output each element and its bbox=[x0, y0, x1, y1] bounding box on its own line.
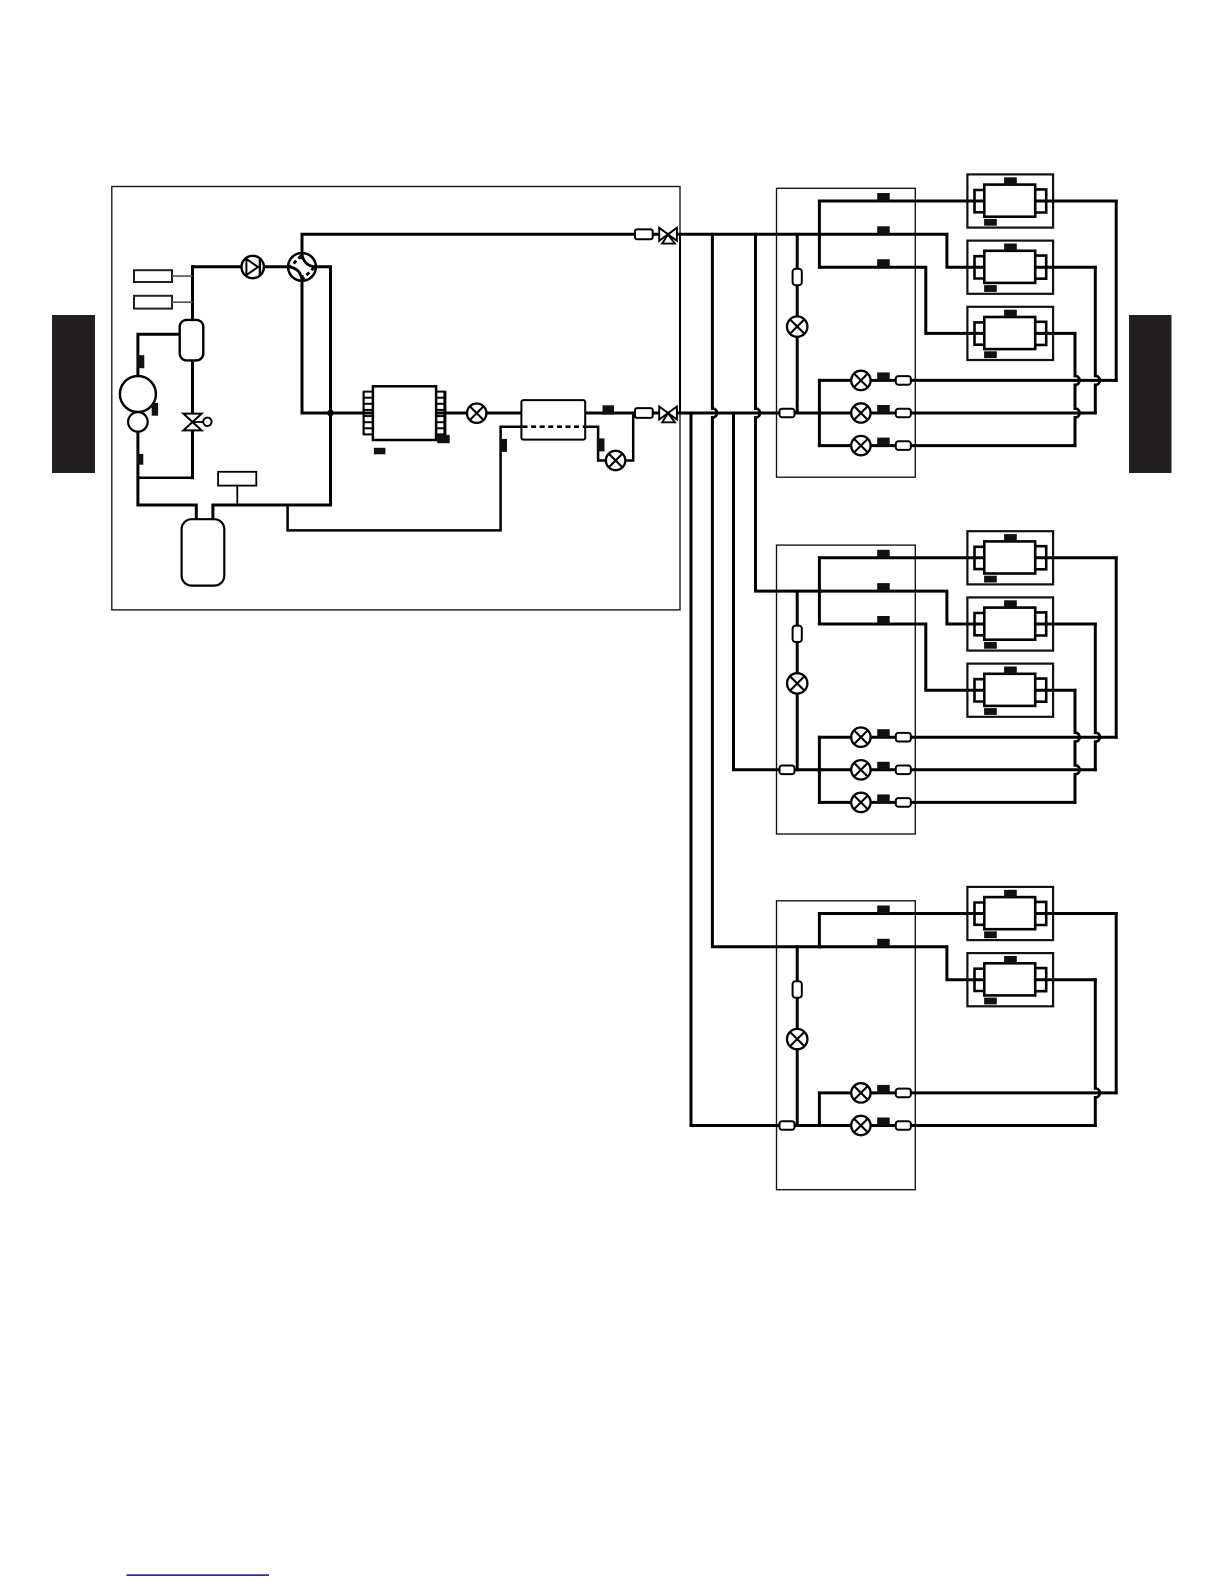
wire: BS3 liquid manifold bbox=[818, 1093, 821, 1126]
wire: indoor unit 1-2 return drop bbox=[1094, 267, 1097, 376]
liquid line stop valve SVL1 (with service port) bbox=[635, 407, 677, 423]
fan motor box M1 bbox=[134, 270, 172, 282]
wire: subcooler branch from bottom header bbox=[288, 427, 522, 531]
expansion valve EV32 (circle-X) bbox=[851, 1116, 870, 1135]
wire: BS1 gas line C to indoor unit 1-3 bbox=[819, 267, 987, 333]
wire: BS2 gas line A to indoor unit 2-1 bbox=[819, 556, 987, 559]
wire: indoor unit 2-3 outlet stub bbox=[1033, 689, 1075, 692]
sensor mark T5 (coil outlet) bbox=[437, 435, 450, 443]
wire: indoor unit 1-1 return drop bbox=[1115, 201, 1118, 380]
sensor mark BS1-GB bbox=[877, 226, 890, 234]
footer blue rule bbox=[127, 1574, 270, 1576]
gas line stop valve SVG1 (with service port) bbox=[635, 228, 677, 244]
wire: indoor unit 3-1 return drop bbox=[1115, 914, 1118, 1093]
indoor unit 1-2 bbox=[967, 241, 1053, 294]
four-way valve V4W bbox=[288, 253, 316, 281]
wire: BS1 gas line B step to indoor unit 1-2 bbox=[947, 234, 987, 267]
check valve / pump symbol bbox=[242, 256, 264, 278]
wire: BS3 liquid row1 bbox=[819, 1091, 1116, 1094]
compressor COMP (lower dome) bbox=[128, 412, 148, 432]
node: heat exchanger junction dot bbox=[327, 410, 334, 417]
expansion valve EV21 (circle-X) bbox=[851, 728, 870, 747]
sensor mark BS2-GC bbox=[877, 616, 890, 624]
indoor unit 2-3 bbox=[967, 664, 1053, 717]
branch box BS3 enclosure bbox=[777, 901, 916, 1190]
wire: gas riser crossover to branch box BS3 bbox=[711, 234, 714, 408]
wire: indoor unit 2-2 return drop bbox=[1094, 624, 1097, 733]
wire: indoor unit 1-3 outlet stub bbox=[1033, 332, 1075, 335]
sensor mark BS1-GA bbox=[877, 193, 890, 201]
outdoor unit enclosure bbox=[112, 187, 680, 610]
sensor mark BS3-L1 bbox=[877, 1085, 890, 1093]
wire: BS2 gas strainer branch bbox=[796, 591, 799, 770]
expansion valve EV13 (circle-X) bbox=[851, 436, 870, 455]
expansion valve EV11 (circle-X) bbox=[851, 371, 870, 390]
sensor mark T7 (subcooler bypass) bbox=[597, 438, 605, 451]
expansion valve EV20 (circle-X) bbox=[787, 673, 807, 693]
sensor mark BS2-L1 bbox=[877, 729, 890, 737]
sensor mark T3 (suction lower) bbox=[137, 454, 144, 465]
wire: indoor unit 3-1 outlet stub bbox=[1033, 912, 1116, 915]
crankcase heater box bbox=[218, 472, 256, 486]
wire: accumulator down through expansion valve EEV1 bbox=[191, 267, 194, 478]
indoor unit 2-1 bbox=[967, 531, 1053, 584]
wire: BS3 gas line A to indoor unit 3-1 bbox=[819, 912, 987, 915]
sensor mark BS3-GA bbox=[877, 906, 890, 914]
flare joint BS2-L3 (port) bbox=[896, 798, 911, 807]
wire: indoor unit 1-3 return drop bbox=[1074, 333, 1077, 375]
wire: fan motor box M2 lead bbox=[172, 301, 193, 303]
wire: BS2 gas manifold bbox=[818, 558, 821, 624]
strainer F3 bbox=[793, 981, 802, 997]
wire: gas riser crossover to branch box BS2 bbox=[754, 234, 757, 408]
wire: BS1 liquid row1 bbox=[819, 379, 1116, 382]
sensor mark BS1-GC bbox=[877, 259, 890, 267]
wire: BS3 gas manifold bbox=[818, 914, 821, 947]
indoor unit 2-2 bbox=[967, 597, 1053, 650]
sensor mark BS2-GA bbox=[877, 550, 890, 558]
expansion valve EV22 (circle-X) bbox=[851, 760, 870, 779]
sensor mark BS3-GB bbox=[877, 939, 890, 947]
indoor unit 1-3 bbox=[967, 307, 1053, 360]
wire: liquid riser to branch box BS3 bbox=[691, 413, 821, 1126]
flare joint BS3-L1 (port) bbox=[896, 1089, 911, 1098]
wire: receiver outlet to four-way valve riser bbox=[213, 267, 331, 522]
expansion valve EV31 (circle-X) bbox=[851, 1083, 870, 1102]
wire: crankcase sensor stub bbox=[236, 485, 238, 505]
subcooler SC (plate hx) bbox=[521, 400, 585, 440]
solenoid valve SV2 (circle-X) bbox=[606, 451, 625, 470]
flare joint BS2-L1 (port) bbox=[896, 733, 911, 742]
sensor mark BS1-L1 bbox=[877, 372, 890, 380]
wire: indoor unit 2-2 outlet stub bbox=[1033, 623, 1095, 626]
indoor unit 3-1 bbox=[967, 887, 1053, 940]
strainer F2 bbox=[793, 626, 802, 642]
sensor mark BS2-GB bbox=[877, 583, 890, 591]
strainer F1 bbox=[793, 269, 802, 285]
right margin tab (black) bbox=[1129, 315, 1172, 473]
wire: fan motor box M1 lead bbox=[172, 275, 193, 277]
wire: discharge pipe to four-way valve bbox=[193, 265, 289, 268]
sensor mark BS3-L2 bbox=[877, 1118, 890, 1126]
wire: indoor unit 3-2 outlet stub bbox=[1033, 978, 1095, 981]
sensor mark BS2-L2 bbox=[877, 762, 890, 770]
wire: top pipe from four-way valve to gas stop valve bbox=[302, 234, 947, 253]
branch box BS1 enclosure bbox=[777, 188, 916, 477]
flare joint BS2-L2 (port) bbox=[896, 766, 911, 775]
wire: oil-return tee to expansion valve line bbox=[138, 477, 193, 480]
receiver REC bbox=[182, 519, 225, 585]
sensor mark T6 (subcooler branch) bbox=[499, 439, 507, 452]
sensor mark T8 (liquid main) bbox=[603, 405, 615, 414]
wire: BS2 gas line B from riser to indoor unit 2-2 bbox=[819, 591, 987, 624]
sensor mark T4 (coil) bbox=[374, 448, 386, 455]
wire: liquid main from heat exchanger through branch box BS1 bbox=[331, 412, 1096, 415]
expansion valve EV12 (circle-X) bbox=[851, 403, 870, 422]
wire: BS3 gas strainer branch bbox=[796, 947, 799, 1126]
wire: liquid riser to branch box BS2 bbox=[734, 413, 822, 770]
sensor mark T2 (compressor shell) bbox=[152, 403, 158, 416]
wire: BS2 liquid manifold bbox=[818, 737, 821, 802]
wire: indoor unit 2-1 return drop bbox=[1115, 558, 1118, 737]
flare joint BS1-L3 (port) bbox=[896, 441, 911, 450]
wire: indoor unit 1-2 outlet stub bbox=[1033, 266, 1095, 269]
wire: four-way valve bottom leg to heat-exchanger node bbox=[302, 280, 329, 413]
wire: BS3 liquid row2 bbox=[819, 1124, 1095, 1127]
wire: BS1 gas line A to indoor unit 1-1 bbox=[819, 200, 987, 203]
wire: BS1 gas strainer branch bbox=[796, 234, 799, 413]
wire: BS2 liquid row3 bbox=[819, 801, 1075, 804]
wire: indoor unit 2-3 return drop bbox=[1074, 690, 1077, 732]
sensor mark BS1-L3 bbox=[877, 438, 890, 446]
expansion valve EEV1 (hourglass) bbox=[183, 414, 211, 431]
fan motor box M2 bbox=[134, 296, 172, 309]
wire: BS1 gas manifold bbox=[818, 201, 821, 267]
wire: suction pipe accumulator to compressor (left loop) bbox=[138, 334, 196, 522]
wire: indoor unit 2-1 outlet stub bbox=[1033, 556, 1116, 559]
expansion valve EV23 (circle-X) bbox=[851, 793, 870, 812]
wire: BS3 gas line B from riser to indoor unit 3-2 bbox=[819, 947, 987, 980]
compressor COMP (shell) bbox=[120, 376, 156, 412]
left margin tab (black) bbox=[52, 315, 95, 473]
wire: indoor unit 1-1 outlet stub bbox=[1033, 200, 1116, 203]
flare joint BS2 liquid inlet (port) bbox=[780, 766, 795, 775]
wire: BS2 gas line C to indoor unit 2-3 bbox=[819, 624, 987, 690]
solenoid valve SV1 (circle-X) bbox=[467, 404, 486, 423]
wire: BS1 liquid manifold bbox=[818, 380, 821, 445]
wire: indoor unit 3-2 return drop bbox=[1094, 980, 1097, 1089]
flare joint BS3-L2 (port) bbox=[896, 1121, 911, 1130]
wire: BS2 liquid row2 bbox=[819, 768, 1095, 771]
flare joint BS1-L1 (port) bbox=[896, 376, 911, 385]
accumulator ACC bbox=[180, 320, 204, 361]
sensor mark BS2-L3 bbox=[877, 794, 890, 802]
indoor unit 1-1 bbox=[967, 174, 1053, 227]
wire: unit-edge service header segment bbox=[679, 234, 681, 413]
flare joint BS1 liquid inlet (port) bbox=[780, 409, 795, 418]
flare joint BS1-L2 (port) bbox=[896, 409, 911, 418]
wire: BS1 liquid row3 bbox=[819, 444, 1075, 447]
flare joint BS3 liquid inlet (port) bbox=[780, 1121, 795, 1130]
wire: BS2 liquid row1 bbox=[819, 736, 1116, 739]
expansion valve EV30 (circle-X) bbox=[787, 1029, 807, 1049]
sensor mark T1 (suction line) bbox=[137, 355, 145, 368]
expansion valve EV10 (circle-X) bbox=[787, 316, 807, 336]
indoor unit 3-2 bbox=[967, 953, 1053, 1006]
sensor mark BS1-L2 bbox=[877, 405, 890, 413]
heat exchanger HX (outdoor coil) bbox=[363, 386, 445, 440]
branch box BS2 enclosure bbox=[777, 545, 916, 834]
wire: subcooler bypass through expansion valve EV2 bbox=[585, 413, 633, 461]
